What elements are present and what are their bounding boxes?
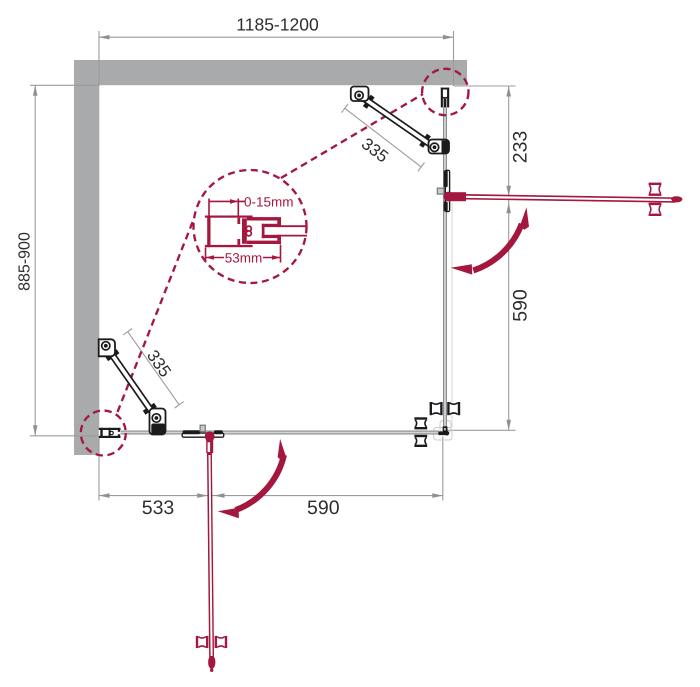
svg-text:533: 533 bbox=[142, 497, 175, 519]
svg-text:885-900: 885-900 bbox=[17, 232, 34, 291]
svg-text:590: 590 bbox=[307, 497, 340, 519]
svg-text:0-15mm: 0-15mm bbox=[244, 195, 294, 210]
svg-text:53mm: 53mm bbox=[225, 250, 263, 265]
svg-text:1185-1200: 1185-1200 bbox=[236, 15, 319, 35]
svg-text:590: 590 bbox=[510, 289, 532, 322]
svg-text:233: 233 bbox=[510, 131, 532, 164]
